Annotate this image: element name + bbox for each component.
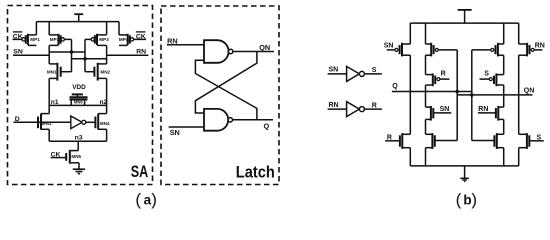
svg-text:SN: SN [329,67,339,74]
svg-text:MN3: MN3 [42,121,52,126]
svg-text:RN: RN [136,48,146,55]
svg-text:SN: SN [384,43,394,50]
svg-text:QN: QN [524,88,535,95]
svg-text:MN6: MN6 [74,99,84,104]
svg-text:MP4: MP4 [119,37,129,42]
svg-text:RN: RN [329,102,339,109]
svg-text:n2: n2 [100,99,108,106]
svg-text:MN2: MN2 [100,70,110,75]
svg-text:MN5: MN5 [71,154,81,159]
svg-text:R: R [441,71,446,78]
svg-text:MN1: MN1 [47,70,57,75]
svg-text:Latch: Latch [236,164,275,182]
svg-text:SA: SA [131,163,149,181]
svg-text:S: S [537,134,542,141]
svg-text:R: R [387,134,392,141]
svg-text:QN: QN [259,43,270,52]
svg-text:MP1: MP1 [30,37,40,42]
svg-text:R: R [372,102,377,109]
svg-text:n3: n3 [75,134,83,141]
svg-text:n1: n1 [51,99,59,106]
svg-text:S: S [372,67,377,74]
svg-text:MP3: MP3 [99,37,109,42]
svg-text:SN: SN [170,128,180,137]
svg-text:Q: Q [392,83,398,90]
svg-text:Q: Q [264,121,270,130]
svg-text:S: S [484,71,489,78]
svg-text:RN: RN [535,43,545,50]
svg-text:VDD: VDD [72,84,86,91]
svg-text:SN: SN [440,106,450,113]
svg-text:(: ( [456,190,462,209]
svg-text:(: ( [135,190,141,209]
svg-text:MP2: MP2 [50,37,60,42]
svg-text:RN: RN [478,106,488,113]
svg-text:SN: SN [13,48,23,55]
svg-text:): ) [471,190,477,209]
svg-text:): ) [151,190,157,209]
svg-text:MN4: MN4 [100,121,110,126]
